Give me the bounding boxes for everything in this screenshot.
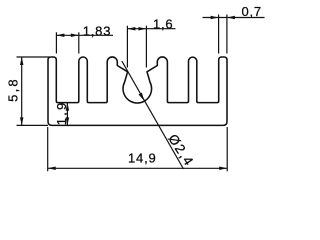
svg-text:1,9: 1,9 [54,101,69,126]
5,8 arrows [20,57,24,65]
dimension texts [6,4,262,169]
14,9 extension lines [47,127,49,171]
svg-text:14,9: 14,9 [128,151,157,166]
0,7 arrows (outside) [211,16,219,20]
1,83 extension lines [55,32,57,53]
5,8 dimension: bottom extension line [17,124,49,126]
1,6 extension lines [126,26,128,68]
1,83 dimension line [56,34,113,36]
heatsink profile outline [48,57,227,125]
0,7 extension lines [218,15,220,54]
svg-text:1,6: 1,6 [153,17,173,32]
svg-text:5,8: 5,8 [6,77,21,102]
dimension and extension lines [17,15,265,172]
1,6 dimension line [127,28,175,30]
diameter leader line [122,61,184,169]
5,8 dimension line [21,57,23,125]
14,9 dimension line [48,167,228,169]
1,6 arrows [127,27,135,31]
svg-text:0,7: 0,7 [241,4,261,19]
14,9 arrows [48,167,56,171]
svg-text:1,83: 1,83 [83,24,112,39]
1,9 dimension line [66,103,68,126]
svg-text:Ø2,4: Ø2,4 [165,131,197,169]
arrowheads [20,16,235,170]
1,83 arrows [56,34,64,38]
diameter leader arrow [139,93,145,101]
5,8 dimension: top extension line [17,56,50,58]
1,9 arrows [66,103,70,111]
0,7 dimension line [203,17,265,19]
